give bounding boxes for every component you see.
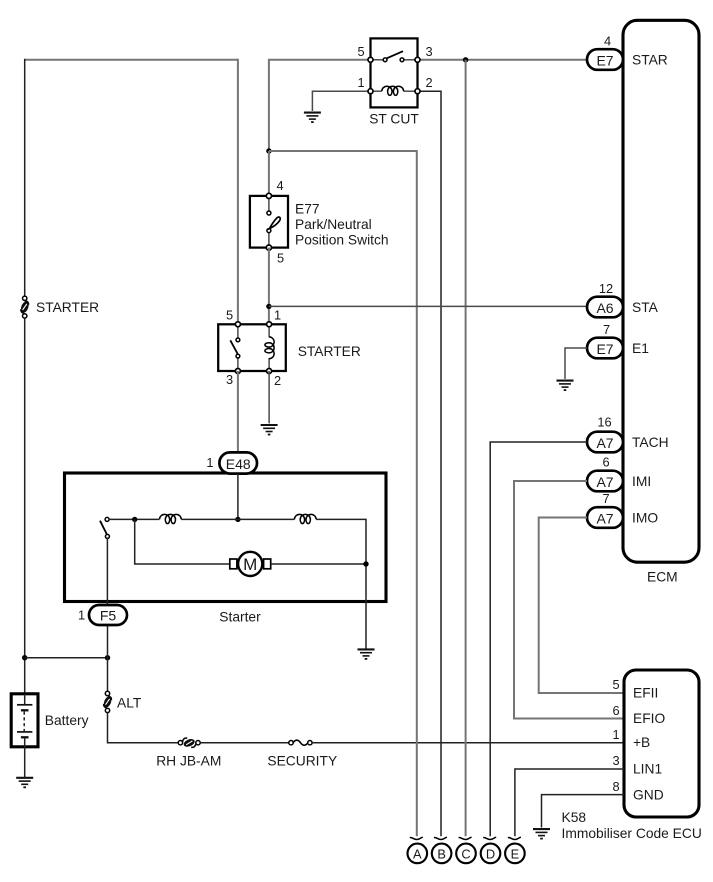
label ALT (117, 696, 142, 711)
wire: node C vertical to off-page C (465, 60, 467, 836)
wire: IMO to K58 EFII (539, 518, 624, 694)
pin 2 label STARTER relay (274, 373, 281, 388)
wire: SECURITY to K58 +B pin (312, 742, 624, 744)
svg-text:K58: K58 (562, 810, 587, 825)
node A circle (408, 844, 428, 864)
motor M starter (230, 552, 271, 576)
svg-text:3: 3 (612, 753, 619, 768)
off-page wave C (459, 837, 472, 839)
svg-text:STAR: STAR (632, 53, 668, 68)
pin 4 label E77 (276, 178, 283, 193)
fuse ALT (fusible link) (102, 691, 112, 712)
svg-text:3: 3 (425, 44, 432, 59)
pin 3 label ST CUT (425, 44, 432, 59)
pin 8 label K58 GND (612, 779, 619, 794)
pin 3 label STARTER relay (226, 372, 233, 387)
wire: motor right to ground branch (271, 563, 366, 565)
svg-text:EFII: EFII (633, 686, 658, 701)
label K58 Immobiliser Code ECU (562, 810, 702, 841)
svg-text:4: 4 (604, 34, 611, 49)
wire: switch to first coil (109, 518, 159, 520)
pin 4 label ECM STAR (604, 34, 611, 49)
svg-text:ST CUT: ST CUT (369, 111, 419, 126)
svg-text:ECM: ECM (647, 570, 678, 585)
pin 3 label K58 LIN1 (612, 753, 619, 768)
svg-text:Immobiliser Code ECU: Immobiliser Code ECU (562, 826, 702, 841)
wire: STA run to ECM A6 (269, 305, 587, 307)
node B circle (432, 844, 452, 864)
pin 7 label ECM E1 (603, 322, 610, 337)
svg-text:6: 6 (612, 703, 619, 718)
label STARTER relay (298, 344, 361, 359)
svg-text:A7: A7 (596, 474, 613, 490)
node C circle (456, 844, 476, 864)
wire: ALT fuse to +B bottom run, to RH JB-AM (108, 713, 179, 743)
svg-text:STARTER: STARTER (298, 344, 361, 359)
pin 1 label E48 (206, 455, 213, 470)
label IMO (632, 511, 658, 526)
pin 1 label F5 (78, 608, 85, 623)
wire: F5 down through junction to ALT fuse (107, 625, 109, 691)
fuse RH JB-AM (fusible link) (178, 738, 200, 749)
wire: vertical drop to STARTER relay pin 5 (237, 59, 239, 325)
ECU ECM box (623, 20, 699, 562)
wire: IMI to K58 EFIO (514, 481, 624, 719)
svg-text:2: 2 (425, 75, 432, 90)
connector E48 (219, 452, 257, 473)
coil starter pull-in winding (294, 514, 316, 523)
ECU K58 Immobiliser Code ECU box (624, 670, 699, 817)
svg-text:A: A (413, 847, 422, 862)
pin 16 label ECM TACH (597, 415, 611, 430)
off-page wave D (483, 837, 496, 839)
label ST CUT (369, 111, 419, 126)
svg-text:E7: E7 (596, 341, 613, 357)
svg-text:B: B (437, 847, 446, 862)
label RH JB-AM (156, 753, 221, 768)
svg-text:STA: STA (632, 300, 659, 315)
svg-text:A7: A7 (596, 435, 613, 451)
svg-text:1: 1 (274, 308, 281, 323)
svg-text:D: D (486, 847, 495, 862)
svg-text:E48: E48 (226, 456, 251, 472)
connector E7 pin 4 (STAR) (587, 49, 623, 70)
svg-text:M: M (243, 555, 257, 574)
svg-text:5: 5 (277, 251, 284, 266)
ground E1 (557, 381, 574, 391)
svg-text:E7: E7 (596, 52, 613, 68)
svg-text:LIN1: LIN1 (633, 762, 662, 777)
pin 5 label K58 EFII (612, 677, 619, 692)
pin 7 label ECM IMO (602, 491, 609, 506)
wire: battery branch horizontal to ALT line (25, 657, 108, 659)
wire: ST CUT pin 5 left and down to E77 junction (269, 60, 371, 151)
coil starter hold-in winding (160, 514, 182, 523)
svg-text:A7: A7 (596, 510, 613, 526)
label TACH (632, 435, 669, 450)
svg-text:3: 3 (226, 372, 233, 387)
svg-text:12: 12 (599, 281, 613, 296)
pin 12 label ECM STA (599, 281, 613, 296)
label LIN1 (633, 762, 662, 777)
ground ST CUT coil (304, 113, 321, 123)
wire: TACH to node D vertical (490, 442, 587, 836)
svg-text:+B: +B (633, 735, 650, 750)
wire: top feed horizontal from left rail to starter relay pin 5 drop (25, 59, 238, 61)
svg-text:1: 1 (78, 608, 85, 623)
pin 1 label K58 +B (612, 727, 619, 742)
wire: STARTER fuse to battery top (24, 318, 26, 694)
node D circle (481, 844, 501, 864)
svg-text:A6: A6 (596, 300, 613, 316)
svg-text:E: E (511, 847, 520, 862)
junction node at battery branch (22, 655, 27, 660)
label Starter (219, 610, 261, 625)
svg-text:7: 7 (603, 322, 610, 337)
fuse STARTER (fusible link) (19, 296, 30, 318)
svg-text:C: C (461, 847, 470, 862)
node E circle (505, 844, 525, 864)
svg-text:Starter: Starter (219, 610, 261, 625)
ground starter motor (358, 649, 375, 659)
ground battery (16, 778, 33, 788)
svg-text:5: 5 (612, 677, 619, 692)
label IMI (632, 474, 651, 489)
relay ST CUT (368, 38, 420, 107)
wire: E48 down to coil line junction (237, 474, 239, 520)
label STA (632, 300, 659, 315)
wire: E77 pin 5 down to STARTER relay pin 1 (268, 248, 270, 325)
svg-text:E77: E77 (295, 202, 320, 217)
svg-text:Park/Neutral: Park/Neutral (295, 217, 372, 232)
pin 5 label STARTER relay (226, 308, 233, 323)
wire: ST CUT pin 3 to ECM STAR (418, 59, 588, 61)
ground STARTER relay coil (261, 425, 278, 435)
wire: ST CUT pin 2 to node B vertical (418, 91, 442, 836)
label +B (633, 735, 650, 750)
wire: node A run right and down to off-page A (269, 151, 417, 836)
wire: second coil to right corner down to motor line and ground (316, 519, 366, 648)
wire: relay pin 3 down to E48 (237, 371, 239, 453)
wire: ST CUT pin 1 to ground (312, 91, 370, 111)
junction node STA (266, 304, 271, 309)
label GND (633, 787, 664, 802)
wire: LIN1 to node E vertical (515, 769, 624, 836)
svg-text:16: 16 (597, 415, 611, 430)
label ECM (647, 570, 678, 585)
connector A7 pin 6 (IMI) (587, 471, 623, 492)
junction node on ALT line (105, 655, 110, 660)
label EFIO (633, 711, 665, 726)
svg-text:F5: F5 (100, 608, 117, 624)
svg-text:7: 7 (602, 491, 609, 506)
connector A6 pin 12 (STA) (587, 297, 623, 318)
svg-text:2: 2 (274, 373, 281, 388)
label E1 (632, 341, 649, 356)
label E77 Park/Neutral Position Switch (295, 202, 389, 248)
svg-text:STARTER: STARTER (36, 300, 99, 315)
wire: E1 to ground (565, 348, 587, 379)
pin 6 label K58 EFIO (612, 703, 619, 718)
wire: junction to E77 pin 4 (268, 151, 270, 193)
wire: switch down to F5 (106, 538, 108, 605)
svg-text:5: 5 (357, 44, 364, 59)
connector E7 pin 7 (E1) (587, 338, 623, 359)
svg-text:1: 1 (206, 455, 213, 470)
svg-text:TACH: TACH (632, 435, 669, 450)
junction node above E77 (266, 148, 271, 153)
svg-text:6: 6 (602, 454, 609, 469)
wire: first coil to second coil (181, 518, 294, 520)
connector A7 pin 16 (TACH) (587, 432, 623, 453)
svg-text:EFIO: EFIO (633, 711, 665, 726)
svg-text:ALT: ALT (117, 696, 142, 711)
wire: left rail from top corner down to STARTER fuse (24, 59, 26, 297)
svg-text:Position Switch: Position Switch (295, 233, 389, 248)
junction node under E48 (235, 517, 240, 522)
off-page wave A (410, 837, 423, 839)
wire: GND to ground (542, 795, 625, 828)
pin 6 label ECM IMI (602, 454, 609, 469)
svg-text:5: 5 (226, 308, 233, 323)
fuse SECURITY (289, 740, 312, 745)
battery (11, 694, 38, 747)
ground K58 (533, 829, 550, 839)
label STARTER fuse (36, 300, 99, 315)
off-page wave E (508, 837, 521, 839)
svg-text:GND: GND (633, 787, 664, 802)
svg-text:IMO: IMO (632, 511, 658, 526)
wire: relay pin 2 to ground (268, 371, 270, 423)
svg-text:SECURITY: SECURITY (267, 753, 337, 768)
label Battery (45, 713, 89, 728)
off-page wave B (434, 837, 447, 839)
svg-text:1: 1 (357, 75, 364, 90)
label EFII (633, 686, 658, 701)
svg-text:RH JB-AM: RH JB-AM (156, 753, 221, 768)
relay STARTER (218, 322, 286, 374)
svg-text:Battery: Battery (45, 713, 89, 728)
starter assembly box (65, 473, 387, 602)
pin 2 label ST CUT (425, 75, 432, 90)
switch starter magnetic contact (100, 517, 109, 538)
svg-text:1: 1 (612, 727, 619, 742)
pin 5 label ST CUT (357, 44, 364, 59)
label SECURITY (267, 753, 337, 768)
connector F5 (89, 605, 127, 625)
wire: switch branch down to motor left (135, 519, 230, 564)
wire: battery to ground (24, 747, 26, 777)
svg-text:4: 4 (276, 178, 283, 193)
svg-text:E1: E1 (632, 341, 649, 356)
junction node C (463, 57, 468, 62)
pin 1 label STARTER relay (274, 308, 281, 323)
label STAR (632, 53, 668, 68)
junction node motor right (363, 561, 368, 566)
wire: between RH JB-AM and SECURITY (200, 742, 289, 744)
connector A7 pin 7 (IMO) (587, 507, 623, 528)
pin 5 label E77 (277, 251, 284, 266)
switch E77 Park/Neutral Position Switch (250, 193, 288, 250)
svg-text:8: 8 (612, 779, 619, 794)
svg-text:IMI: IMI (632, 474, 651, 489)
junction node at switch branch (132, 517, 137, 522)
pin 1 label ST CUT (357, 75, 364, 90)
